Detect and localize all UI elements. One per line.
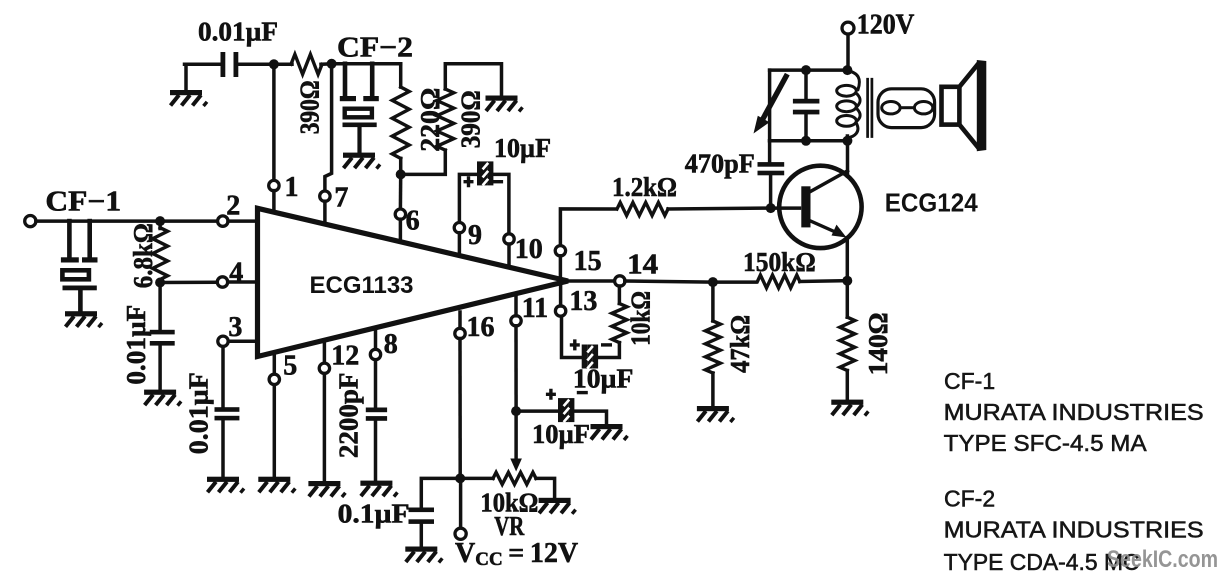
wire node N down to C8	[158, 283, 162, 331]
node E junction	[842, 276, 852, 286]
wire tank top rail	[770, 68, 848, 72]
node N junction	[155, 278, 165, 288]
wire node M to R9	[158, 221, 162, 228]
pin 2 terminal	[218, 216, 228, 226]
node G junction	[842, 65, 852, 75]
wire node B down to pin 7	[325, 64, 332, 191]
wire C1 to node A	[239, 63, 275, 67]
svg-text:15: 15	[574, 246, 602, 277]
ceramic filter CF2 stub left	[343, 64, 348, 97]
wire C5 to pin 13	[562, 316, 582, 358]
ceramic filter CF1 stub left	[67, 221, 72, 258]
plus sign C5	[570, 339, 580, 350]
resistor R2 220ohm	[392, 87, 409, 158]
svg-text:10µF: 10µF	[494, 133, 551, 163]
wire pin9 to IC edge	[458, 233, 462, 256]
wire VR left to node L	[460, 477, 493, 481]
wire C3 up to tank	[768, 141, 772, 163]
svg-text:1: 1	[285, 172, 299, 203]
wire pin11 to IC edge	[514, 294, 518, 316]
ceramic filter CF1 stub right	[87, 221, 92, 258]
capacitor C6 10uF (electrolytic)	[558, 398, 574, 422]
wire node E down to R8	[846, 281, 850, 318]
svg-text:CF−1: CF−1	[45, 186, 121, 217]
wire node L to Vcc terminal	[459, 478, 463, 528]
wire C7 to ground	[420, 524, 424, 548]
wire IC edge to pin 12	[323, 340, 327, 363]
node D junction (base)	[766, 203, 776, 213]
wire pin7 to IC edge	[323, 201, 327, 224]
ground G9 (CF-1)	[65, 311, 102, 327]
svg-text:16: 16	[467, 312, 495, 343]
plus sign C2	[464, 176, 474, 187]
wire R7 to ground	[711, 373, 715, 407]
pin 3 terminal	[218, 336, 228, 346]
wire C6 to ground	[575, 411, 607, 425]
pin 5 terminal	[269, 374, 279, 384]
wire ground to C1	[185, 63, 222, 67]
wire C2 to pin 10	[494, 174, 509, 234]
pin 14 terminal	[615, 276, 625, 286]
wire tank bottom rail	[770, 139, 848, 143]
transistor Q1 ECG124 body	[779, 166, 861, 248]
minus sign C5	[601, 343, 612, 346]
capacitor C9 0.01uF	[215, 407, 240, 412]
svg-text:2: 2	[226, 191, 240, 222]
capacitor C4 (tank)	[793, 99, 820, 104]
capacitor C7 0.1uF	[409, 508, 435, 513]
minus sign C2	[492, 180, 503, 183]
svg-text:14: 14	[627, 250, 658, 281]
transistor Q1 emitter lead	[810, 221, 841, 235]
resistor R3 390ohm (second)	[437, 89, 454, 150]
svg-text:0.1µF: 0.1µF	[338, 499, 410, 529]
svg-text:10µF: 10µF	[532, 419, 590, 449]
wire pin14 down to R6	[618, 286, 622, 304]
capacitor C1 0.01uF (top-left)	[221, 52, 226, 77]
ceramic filter CF2 body	[345, 109, 372, 118]
pin 4 terminal	[217, 277, 227, 287]
capacitor C3 470pF	[758, 162, 785, 167]
inductor L1 primary winding	[847, 71, 859, 90]
pin 9 terminal	[454, 223, 464, 233]
pin 12 terminal	[319, 363, 329, 373]
terminal Vcc	[455, 528, 466, 539]
node B junction	[327, 59, 337, 69]
wire primary to bottom rail	[846, 136, 850, 141]
pin 13 terminal	[555, 306, 565, 316]
resistor R5 150kohm	[757, 275, 799, 288]
resistor R6 10kohm	[612, 304, 627, 343]
pin 8 terminal	[370, 349, 380, 359]
wire VR right to ground	[536, 478, 555, 499]
ceramic filter CF2 bottom bar	[343, 123, 377, 128]
svg-text:CF−2: CF−2	[337, 32, 413, 63]
ceramic filter CF2 stub right	[370, 64, 375, 97]
wire cap C4 bottom stub	[804, 114, 808, 141]
wire R8 to ground	[846, 371, 850, 402]
ceramic filter CF1 ground stub	[78, 290, 83, 312]
svg-text:140Ω: 140Ω	[863, 312, 893, 375]
svg-text:12: 12	[331, 341, 359, 372]
pin 16 terminal	[455, 328, 465, 338]
svg-text:13: 13	[569, 286, 597, 317]
wire emitter down to node E	[846, 238, 850, 281]
svg-text:10µF: 10µF	[573, 364, 634, 394]
wire pin 15 up and right	[560, 209, 616, 246]
wire cap C4 top stub	[804, 70, 808, 99]
wire pin14 to node J	[625, 281, 756, 282]
wire node B to CF-2 and R2	[332, 62, 401, 66]
transistor Q1 base bar	[801, 186, 810, 227]
svg-text:6: 6	[406, 206, 420, 237]
ceramic filter CF2 ground stub	[357, 127, 361, 154]
wire R6 bottom to C5	[598, 343, 619, 358]
node I junction	[842, 136, 852, 146]
ground G5 (VR)	[539, 498, 576, 514]
wire IC output to pin 14	[568, 279, 615, 283]
wire 120V down	[846, 34, 850, 70]
wire pin5 to ground	[273, 385, 277, 478]
svg-text:ECG1133: ECG1133	[310, 272, 414, 299]
wire IC edge to pin 8	[374, 328, 378, 350]
wire tank left leg	[768, 70, 772, 141]
wire C9 to ground	[221, 420, 225, 478]
svg-text:3: 3	[228, 312, 242, 343]
svg-text:MURATA INDUSTRIES: MURATA INDUSTRIES	[944, 399, 1204, 425]
wire pin 9 up to C2	[459, 174, 476, 222]
wire pin15 to IC edge	[559, 256, 563, 279]
ground G13 (pin12)	[308, 481, 345, 497]
resistor R7 47kohm	[705, 321, 720, 373]
ground G14 (C10)	[360, 481, 397, 497]
wire pin3 to IC edge	[228, 340, 257, 344]
terminal 120V	[842, 22, 854, 34]
wire C8 to ground	[158, 346, 162, 391]
capacitor C5 10uF (electrolytic)	[582, 345, 598, 369]
resistor R4 1.2kohm	[617, 203, 668, 216]
ground G11 (C9)	[207, 477, 244, 493]
wire pin10 to IC edge	[507, 244, 511, 267]
resistor R9 6.8kohm	[153, 228, 168, 280]
svg-text:6.8kΩ: 6.8kΩ	[128, 223, 158, 288]
wire node K to C6	[516, 409, 557, 413]
ground G12 (pin5)	[258, 477, 295, 493]
ceramic filter CF1 body	[62, 270, 89, 279]
inductor L2 secondary winding	[878, 89, 935, 128]
svg-text:390Ω: 390Ω	[295, 80, 325, 134]
transistor Q1 emitter arrowhead	[832, 225, 847, 238]
svg-text:0.01µF: 0.01µF	[121, 305, 151, 385]
svg-text:9: 9	[468, 220, 482, 251]
svg-text:47kΩ: 47kΩ	[725, 315, 755, 373]
wire top to R2 220ohm	[399, 64, 403, 87]
wire node C to pin 6	[399, 174, 403, 209]
ground G2 (CF-2)	[343, 153, 380, 169]
node F junction	[801, 65, 811, 75]
wire pin13 to IC edge	[559, 284, 563, 307]
node M junction	[155, 216, 165, 226]
wire IC edge to pin 5	[273, 352, 277, 374]
capacitor C10 2200pF	[366, 408, 387, 413]
pin 10 terminal	[504, 234, 514, 244]
wire R5 to node E	[800, 279, 848, 283]
svg-text:8: 8	[384, 329, 398, 360]
ground G1 (top-left)	[184, 64, 188, 91]
trimmer arrow (variable)	[762, 77, 787, 122]
wire pin1 to IC edge	[272, 191, 276, 213]
wire pin11 down to node K	[514, 326, 518, 411]
ground G7 (R7)	[697, 406, 734, 422]
speaker SP1	[942, 87, 960, 125]
node K junction	[511, 406, 521, 416]
ceramic filter CF2 plates	[340, 96, 356, 101]
svg-text:4: 4	[229, 258, 243, 289]
wire collector up to tank	[846, 141, 850, 176]
svg-text:MURATA INDUSTRIES: MURATA INDUSTRIES	[944, 517, 1204, 543]
arrow to VR wiper	[514, 411, 518, 462]
wire R2/R3 bottoms joined	[401, 150, 446, 174]
wire node A to R1	[274, 63, 292, 67]
wire pin16 down to node L	[458, 312, 462, 329]
ceramic filter CF1 bottom bar	[63, 286, 97, 291]
pin 7 terminal	[320, 191, 330, 201]
pin 1 terminal	[269, 180, 279, 190]
node A junction	[269, 59, 279, 69]
svg-text:150kΩ: 150kΩ	[743, 247, 816, 277]
ceramic filter CF1 plates	[61, 257, 79, 262]
wire input line	[36, 219, 218, 223]
wire node A down to pin 1	[272, 64, 276, 180]
ground G8 (R8)	[831, 400, 868, 416]
wire node L to C7	[421, 478, 460, 508]
wire pin6 to IC edge	[399, 219, 403, 242]
transistor Q1 collector lead	[810, 171, 848, 192]
node H junction	[801, 136, 811, 146]
wire pin8 down to C10	[374, 360, 378, 408]
resistor VR1 10kohm	[493, 472, 536, 484]
svg-text:0.01µF: 0.01µF	[198, 17, 278, 47]
pin 6 terminal	[395, 209, 405, 219]
resistor R8 140ohm	[840, 317, 855, 370]
wire pin4 to IC edge	[228, 280, 257, 284]
svg-text:TYPE SFC-4.5 MA: TYPE SFC-4.5 MA	[944, 430, 1148, 456]
wire R4 to base node	[668, 206, 800, 210]
wire R3 top to ground drop	[445, 64, 501, 97]
wire pin12 to ground	[323, 374, 327, 483]
capacitor C8 0.01uF	[150, 330, 175, 335]
wire node J down to R7	[711, 282, 715, 321]
svg-text:VCC = 12V: VCC = 12V	[455, 538, 578, 570]
capacitor C2 10uF (electrolytic)	[477, 161, 493, 185]
wire node N to pin 4	[160, 280, 217, 284]
svg-text:120V: 120V	[857, 9, 915, 40]
svg-text:1.2kΩ: 1.2kΩ	[612, 172, 677, 202]
ground G4 (C6)	[591, 424, 628, 440]
node J junction (47k tap)	[708, 277, 718, 287]
svg-text:CF-1: CF-1	[944, 368, 995, 394]
plus sign C6	[546, 389, 556, 400]
transformer core	[868, 78, 872, 138]
svg-text:11: 11	[522, 293, 548, 324]
ground G10 (C8)	[144, 390, 181, 406]
op-amp U1 ECG1133 triangle	[258, 208, 569, 356]
resistor R1 390ohm (horizontal)	[291, 54, 322, 74]
wire C3 to base node	[769, 175, 773, 208]
svg-text:10kΩ: 10kΩ	[626, 291, 656, 346]
pin 15 terminal	[555, 246, 565, 256]
minus sign C6	[577, 391, 588, 394]
svg-text:SeekIC.com: SeekIC.com	[1107, 546, 1218, 573]
node L junction (Vcc)	[455, 473, 465, 483]
wire C10 to ground	[374, 421, 378, 482]
wire pin3 down to C9	[221, 347, 225, 409]
svg-text:CF-2: CF-2	[944, 486, 995, 512]
svg-text:VR: VR	[494, 511, 524, 541]
terminal input	[25, 216, 36, 227]
svg-text:5: 5	[283, 351, 297, 382]
pin 11 terminal	[511, 316, 521, 326]
ground G6 (C7)	[405, 547, 442, 563]
svg-text:390Ω: 390Ω	[456, 90, 486, 148]
svg-text:2200pF: 2200pF	[334, 373, 364, 459]
wire pin16 to Vcc node	[458, 339, 462, 479]
wire pin2 to IC edge	[228, 219, 257, 223]
svg-text:ECG124: ECG124	[885, 188, 978, 218]
svg-text:0.01µF: 0.01µF	[184, 372, 214, 454]
svg-text:10: 10	[515, 234, 543, 265]
svg-text:470pF: 470pF	[685, 149, 755, 179]
svg-text:7: 7	[334, 183, 348, 214]
node C junction (pin6 tap)	[396, 169, 406, 179]
ground G3 (R3 top)	[486, 96, 523, 112]
